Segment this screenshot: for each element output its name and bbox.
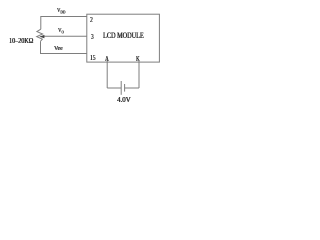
- label Vdd: [57, 8, 65, 15]
- pin A: [105, 55, 109, 62]
- wiper arrowhead of R1: [39, 35, 44, 38]
- LCD module box U1: [87, 14, 160, 62]
- wire battery right: [125, 87, 139, 89]
- label 10-20K ohm: [9, 38, 33, 45]
- wire Vee (pot bottom to pin 15): [41, 41, 87, 53]
- battery BT1 long plate: [120, 81, 122, 95]
- wire pin A down: [106, 60, 108, 88]
- pin K: [136, 56, 140, 63]
- label LCD MODULE: [103, 32, 144, 40]
- pin 3: [91, 33, 94, 40]
- wire Vo (wiper to pin 3): [44, 35, 87, 37]
- battery BT1 short plate: [124, 84, 126, 92]
- wire battery left: [107, 87, 121, 89]
- pin 2: [90, 16, 93, 23]
- label 4.0V battery value: [117, 96, 131, 104]
- wire pin K down: [138, 61, 140, 89]
- pin 15: [90, 54, 95, 62]
- potentiometer R1 zigzag: [37, 29, 43, 41]
- wire Vdd (pot top to pin 2): [41, 17, 87, 30]
- label Vo: [58, 28, 64, 35]
- label Vee: [54, 46, 63, 53]
